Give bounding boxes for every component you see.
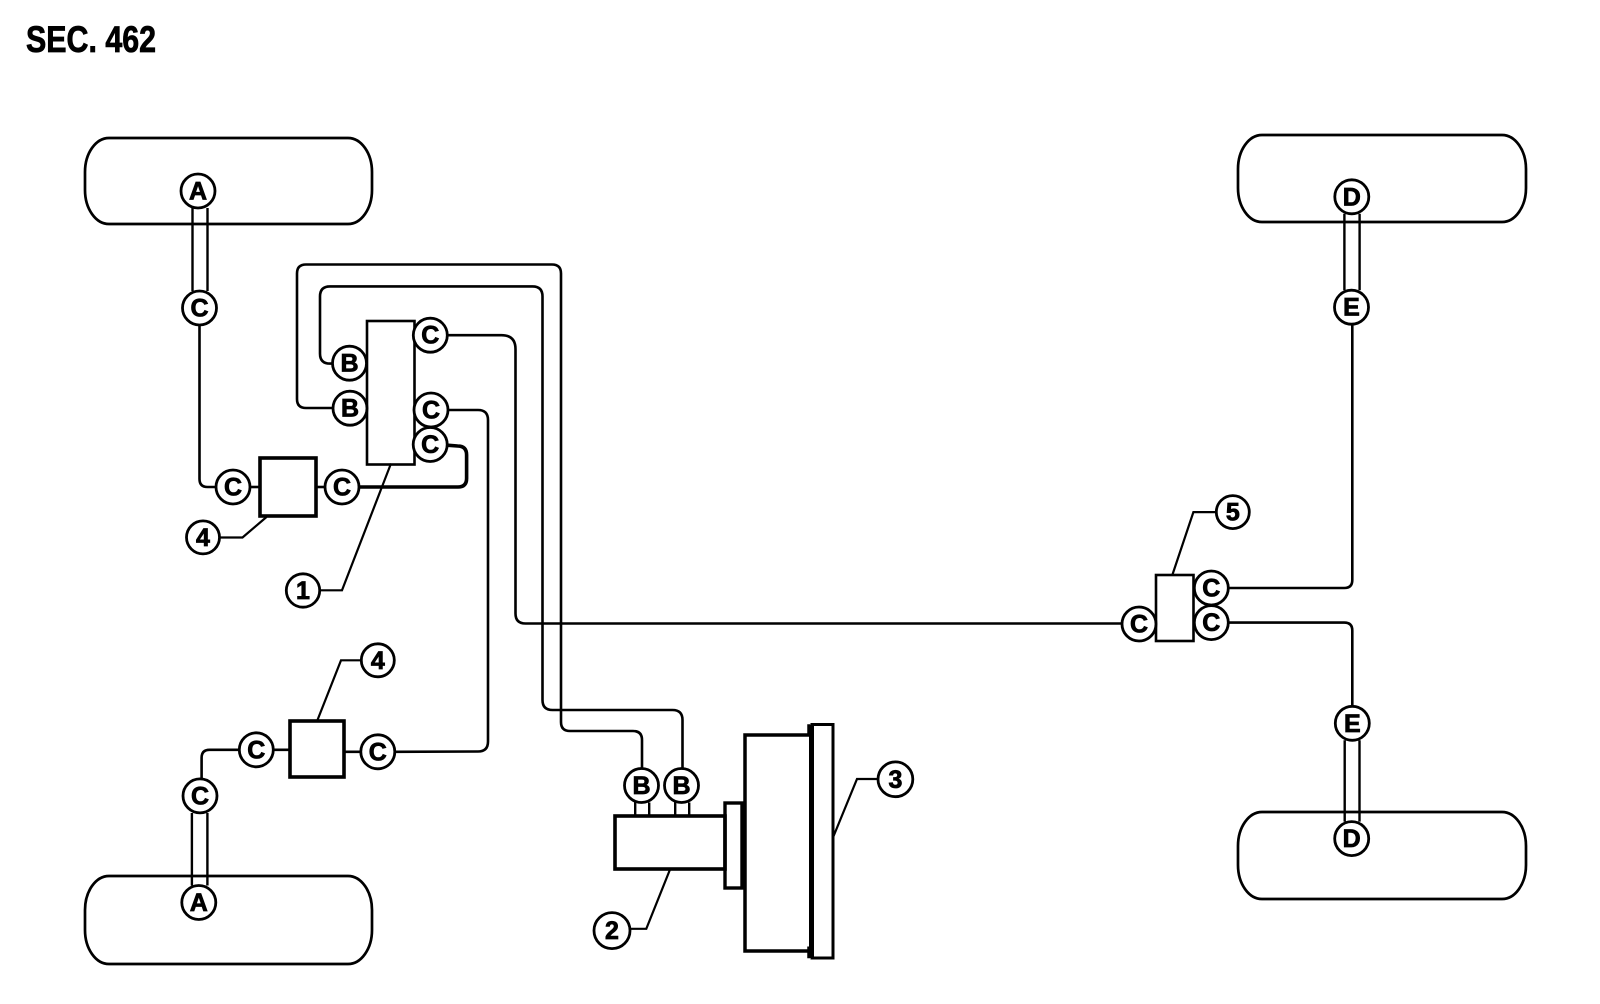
svg-text:E: E <box>1343 294 1360 322</box>
callout circle 3 <box>878 762 913 797</box>
callout circle 2 <box>594 913 630 949</box>
svg-text:C: C <box>422 397 440 425</box>
svg-text:C: C <box>224 474 242 502</box>
booster plate bold edge <box>809 725 814 959</box>
svg-text:A: A <box>190 889 208 917</box>
leader item 4 bottom <box>318 660 362 720</box>
svg-text:C: C <box>247 736 265 764</box>
leader item 2 <box>630 870 670 929</box>
connector B2 item 1 <box>333 391 367 425</box>
connector E rear-left <box>1335 290 1369 324</box>
connector C left of box 4 bottom <box>239 733 273 767</box>
leader item 3 <box>833 779 878 838</box>
connector C right of box 4 bottom <box>361 735 395 769</box>
svg-text:B: B <box>632 772 650 800</box>
svg-text:B: B <box>341 395 359 423</box>
booster plate bottom tab <box>809 947 811 958</box>
wire C to box 4 (bottom) <box>273 748 290 751</box>
svg-text:A: A <box>189 178 207 206</box>
svg-text:B: B <box>672 772 690 800</box>
union D rear-left wheel <box>1335 180 1369 214</box>
svg-text:C: C <box>191 782 209 810</box>
brake hose bottom-left (double line C to A) <box>192 813 208 886</box>
leader item 5 <box>1173 512 1217 574</box>
connector C below A front-left <box>183 291 217 325</box>
master cylinder stubs under right B <box>675 803 689 817</box>
svg-text:C: C <box>1202 575 1220 603</box>
svg-text:1: 1 <box>296 577 310 605</box>
item 2 master cylinder body <box>615 816 725 869</box>
wire C2 of item 1 down to rear box 4 connector C <box>395 410 488 752</box>
connector E rear-right <box>1335 706 1369 740</box>
svg-text:B: B <box>340 350 358 378</box>
wire C1 of item 1 to rear junction C (long line) <box>447 335 1122 623</box>
thick wire C to C3 of item 1 <box>359 445 467 487</box>
item 4 box front-left <box>260 458 316 516</box>
wire box 4 to C (bottom) <box>344 750 361 753</box>
union A front-left <box>181 174 215 208</box>
port B left of master cylinder <box>625 769 659 803</box>
port B right of master cylinder <box>665 769 699 803</box>
connector C top-right of junction 5 <box>1194 571 1228 605</box>
callout circle 1 <box>286 574 319 607</box>
front-right wheel (bottom-left) <box>85 876 372 964</box>
connector C left of box 4 front <box>216 470 250 504</box>
connector circles with letters <box>181 174 1369 949</box>
union A bottom-left <box>182 886 216 920</box>
master cylinder stubs under left B <box>635 803 649 817</box>
brake hose front-left (double line A to C) <box>193 208 208 291</box>
svg-text:D: D <box>1343 825 1361 853</box>
wire rear junction bottom C to rear-right hose E <box>1228 623 1352 707</box>
callout circle 4 bottom <box>361 644 394 677</box>
svg-text:C: C <box>369 738 387 766</box>
wire connector C to box 4 (front-left) <box>250 486 260 489</box>
wire rear junction top C to rear-left hose E <box>1228 324 1352 588</box>
item 4 box bottom <box>290 721 344 777</box>
wire outer loop B2 to master cylinder left port B <box>297 265 642 769</box>
connector C1 item 1 <box>413 318 447 352</box>
svg-text:SEC. 462: SEC. 462 <box>26 19 156 60</box>
booster plate top tab <box>809 726 811 735</box>
item 5 rear junction block <box>1156 575 1194 641</box>
union D rear-right wheel <box>1335 822 1369 856</box>
connector C right of box 4 front <box>325 470 359 504</box>
svg-text:E: E <box>1344 710 1361 738</box>
rear-left wheel (top-right) <box>1238 135 1526 222</box>
rear-right wheel (bottom-right) <box>1238 812 1526 899</box>
connector C above A bottom-left <box>183 779 217 813</box>
connector C3 item 1 <box>413 428 447 462</box>
svg-text:4: 4 <box>196 524 210 552</box>
svg-text:C: C <box>421 322 439 350</box>
master cylinder step flange <box>725 803 742 888</box>
svg-text:2: 2 <box>605 917 619 945</box>
front-left wheel <box>85 138 372 224</box>
svg-text:C: C <box>1202 609 1220 637</box>
svg-text:C: C <box>190 295 208 323</box>
connector C bottom-right of junction 5 <box>1194 606 1228 640</box>
svg-text:D: D <box>1343 183 1361 211</box>
wire box 4 to C (front-left) <box>316 486 325 489</box>
brake hose rear-right (double line E to D) <box>1345 740 1360 821</box>
svg-text:C: C <box>333 474 351 502</box>
svg-text:C: C <box>421 431 439 459</box>
wire front-left C down to connector C <box>200 325 217 487</box>
connector B1 item 1 <box>333 346 367 380</box>
booster mounting plate <box>812 725 833 959</box>
svg-text:4: 4 <box>371 647 385 675</box>
item 3 brake booster body <box>745 735 811 951</box>
svg-text:C: C <box>1130 611 1148 639</box>
callout circle 4 front <box>187 521 220 554</box>
leader item 1 <box>320 464 391 591</box>
wire C to C down-left (second axle) <box>202 750 240 779</box>
svg-text:3: 3 <box>888 766 902 794</box>
brake hose rear-left (double line E to D) <box>1344 214 1359 291</box>
wire inner loop B1 to master cylinder right port B <box>320 286 683 768</box>
leader item 4 front <box>220 517 267 538</box>
connector C2 item 1 <box>414 393 448 427</box>
svg-text:5: 5 <box>1226 499 1240 527</box>
connector C left of junction 5 <box>1122 607 1156 641</box>
item 1 proportioning valve rectangle <box>367 321 415 465</box>
callout circle 5 <box>1216 496 1249 529</box>
